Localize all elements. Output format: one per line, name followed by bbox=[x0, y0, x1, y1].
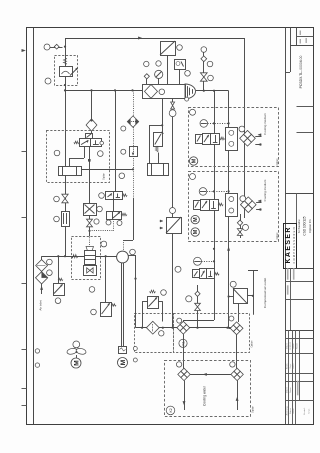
svg-text:KOMPRESSOREN: KOMPRESSOREN bbox=[293, 227, 296, 263]
svg-text:12.05.00: 12.05.00 bbox=[290, 341, 292, 350]
svg-text:M: M bbox=[193, 217, 199, 222]
svg-text:Option: Option bbox=[103, 172, 106, 180]
svg-text:Name: Name bbox=[293, 342, 295, 348]
svg-text:Urspr.: Urspr. bbox=[309, 408, 311, 414]
svg-text:Bearb.: Bearb. bbox=[286, 363, 288, 369]
svg-text:Norm: Norm bbox=[293, 363, 295, 368]
svg-text:Option: Option bbox=[276, 158, 279, 166]
svg-text:Datum: Datum bbox=[289, 408, 292, 414]
svg-text:Riedel: Riedel bbox=[297, 343, 299, 349]
svg-text:Air inlet: Air inlet bbox=[38, 300, 42, 310]
svg-text:PCSDX.TL-.00004.00: PCSDX.TL-.00004.00 bbox=[299, 55, 303, 88]
svg-text:K2: K2 bbox=[169, 408, 173, 412]
svg-text:CSD 100/125: CSD 100/125 bbox=[303, 216, 307, 235]
svg-text:Cooling water: Cooling water bbox=[203, 385, 207, 406]
svg-text:Name: Name bbox=[293, 407, 295, 413]
svg-text:Option: Option bbox=[251, 340, 254, 348]
svg-text:Datum: Datum bbox=[285, 387, 288, 393]
svg-text:M: M bbox=[73, 360, 80, 365]
svg-text:Ersatz f.: Ersatz f. bbox=[303, 407, 306, 415]
svg-text:M: M bbox=[191, 158, 197, 163]
svg-text:Cooling medium: Cooling medium bbox=[263, 113, 267, 135]
svg-text:M: M bbox=[193, 229, 199, 234]
svg-text:Option C1: Option C1 bbox=[308, 219, 312, 233]
svg-text:Gepr.: Gepr. bbox=[290, 363, 292, 368]
svg-text:Datum: Datum bbox=[285, 343, 288, 349]
svg-text:für Baureihe:: für Baureihe: bbox=[298, 219, 301, 234]
svg-text:Compressed air outlet: Compressed air outlet bbox=[263, 278, 267, 308]
svg-text:M: M bbox=[120, 360, 127, 365]
svg-text:Cooling medium: Cooling medium bbox=[263, 179, 267, 201]
svg-text:Option: Option bbox=[276, 232, 279, 240]
svg-text:Name: Name bbox=[290, 386, 292, 392]
svg-text:Option: Option bbox=[252, 405, 255, 413]
svg-text:Änderung: Änderung bbox=[285, 407, 288, 416]
